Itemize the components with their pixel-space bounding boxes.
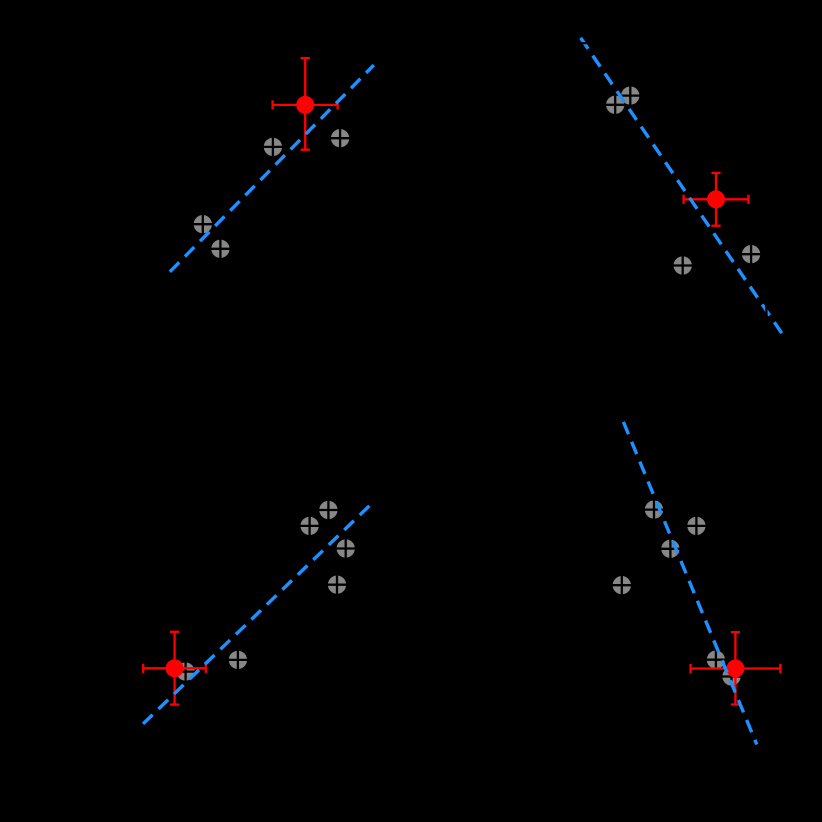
gray data point TR3 (673, 256, 693, 276)
blue dashed fit line TL (169, 65, 374, 273)
red error-bar point BL (143, 632, 206, 705)
gray data point BL1 (319, 500, 339, 520)
gray data point BL2 (300, 516, 320, 536)
gray data point BL3 (336, 539, 356, 559)
axes right spine notch (black over dash) (765, 303, 767, 318)
blue dashed fit line BL (142, 505, 370, 725)
blue dashed fit line BR (623, 422, 756, 745)
blue dashed fit line TR (580, 37, 782, 334)
gray data point BL6 (176, 662, 196, 682)
red error-bar point BR (691, 632, 781, 704)
gray data point BR5 (706, 650, 726, 670)
gray data point TL4 (211, 239, 231, 259)
gray data point TR4 (741, 244, 761, 264)
gray data point BR4 (612, 575, 632, 595)
gray data point BL5 (228, 650, 248, 670)
gray data point BR3 (661, 539, 681, 559)
gray data point TL1 (263, 137, 283, 157)
gray data point TL2 (330, 128, 350, 148)
gray data point TR1 (605, 95, 625, 115)
gray data point BL4 (327, 575, 347, 595)
axes top spine notch (black over dash) (578, 42, 587, 44)
gray data point BR1 (644, 500, 664, 520)
gray data point BR2 (687, 516, 707, 536)
gray data point TR2 (621, 86, 641, 106)
gray data point BR6 (722, 667, 742, 687)
gray data point TL3 (193, 214, 213, 234)
red error-bar point TL (273, 58, 338, 150)
red error-bar point TR (684, 173, 749, 226)
